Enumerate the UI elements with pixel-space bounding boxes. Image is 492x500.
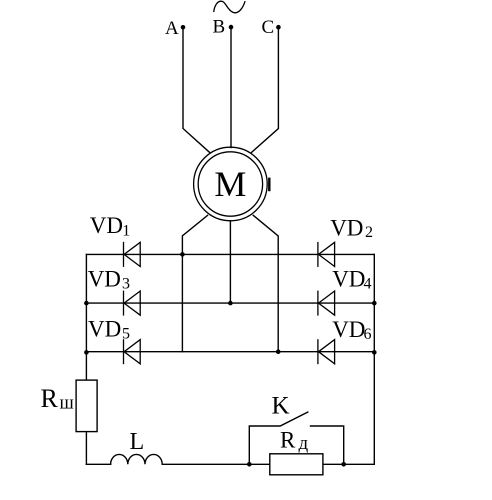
svg-text:VD: VD (332, 317, 365, 342)
svg-text:B: B (213, 17, 226, 38)
svg-text:L: L (130, 429, 145, 455)
svg-text:3: 3 (122, 276, 130, 293)
svg-text:6: 6 (364, 326, 372, 343)
svg-text:VD: VD (332, 266, 365, 291)
svg-text:5: 5 (122, 325, 130, 342)
svg-text:2: 2 (365, 224, 373, 241)
svg-text:ш: ш (60, 393, 75, 414)
svg-text:VD: VD (90, 213, 123, 238)
svg-text:VD: VD (88, 316, 121, 341)
svg-text:K: K (272, 392, 290, 419)
svg-text:4: 4 (364, 275, 372, 292)
svg-text:C: C (262, 17, 275, 38)
svg-text:R: R (280, 427, 296, 452)
svg-text:д: д (299, 433, 309, 454)
svg-text:R: R (41, 384, 59, 413)
svg-text:A: A (165, 18, 179, 39)
svg-text:VD: VD (88, 267, 121, 292)
svg-text:M: M (214, 164, 246, 204)
svg-text:VD: VD (330, 215, 363, 240)
svg-text:1: 1 (122, 223, 130, 240)
